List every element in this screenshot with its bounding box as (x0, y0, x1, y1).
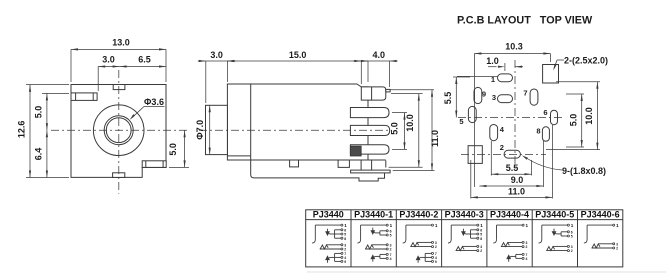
left view jack hole ring inner (106, 118, 131, 143)
svg-text:11.0: 11.0 (430, 130, 440, 147)
dim 11.0 pcb height (391, 90, 440, 171)
svg-text:2-(2.5x2.0): 2-(2.5x2.0) (564, 56, 608, 66)
pad 5 (468, 106, 476, 122)
svg-text:3.0: 3.0 (210, 50, 223, 60)
dim 5.5 pcb left (443, 77, 470, 118)
svg-text:6: 6 (543, 108, 547, 117)
pcb horizontal centerline (458, 117, 562, 119)
svg-text:4: 4 (526, 257, 528, 261)
svg-text:PJ3440-5: PJ3440-5 (535, 210, 574, 220)
dim 12.6 left view (17, 85, 70, 178)
svg-text:9.0: 9.0 (511, 175, 524, 185)
pad 1 (498, 74, 513, 82)
svg-text:5: 5 (390, 234, 392, 238)
svg-text:2: 2 (616, 247, 618, 251)
dim 13.0 left view (71, 37, 166, 82)
dim 15.0 side view (227, 50, 368, 82)
svg-text:7: 7 (523, 89, 527, 98)
svg-text:12.6: 12.6 (17, 121, 27, 139)
pin 2 (350, 108, 389, 118)
svg-text:PJ3440-3: PJ3440-3 (445, 210, 484, 220)
dim 6.5 left view (120, 54, 166, 67)
pcb lower row centerline (461, 153, 546, 155)
svg-text:2: 2 (526, 245, 528, 249)
svg-text:5.5: 5.5 (443, 92, 453, 105)
pin 4 (350, 145, 389, 154)
svg-text:2: 2 (480, 249, 482, 253)
pin 5 base block (361, 161, 386, 171)
pin 4 base section (350, 146, 361, 156)
pad 8 (542, 127, 549, 142)
left view bottom notch (113, 173, 125, 178)
dim 10.0 pcb right (546, 82, 600, 150)
svg-text:1: 1 (526, 223, 529, 228)
schematic PJ3440-4 (493, 223, 528, 262)
side view flange line (250, 84, 252, 156)
svg-text:9-(1.8x0.8): 9-(1.8x0.8) (562, 166, 606, 176)
label 2-(2.5x2.0) with leader (553, 56, 608, 71)
svg-text:4: 4 (390, 257, 392, 261)
svg-text:9: 9 (344, 260, 346, 264)
left view vertical centerline (118, 70, 120, 194)
dim 5.0 left view left side (34, 93, 70, 130)
svg-text:5.0: 5.0 (34, 106, 44, 119)
svg-text:6.4: 6.4 (34, 148, 44, 161)
pin 1 top (361, 87, 390, 100)
svg-text:2: 2 (390, 248, 392, 252)
svg-text:PJ3440-2: PJ3440-2 (399, 210, 438, 220)
svg-text:8: 8 (344, 237, 346, 241)
side view barrel (206, 105, 228, 154)
pad 6 (551, 110, 558, 125)
svg-text:5: 5 (459, 117, 463, 126)
side view centerline (199, 129, 392, 131)
pad 7 (530, 89, 538, 105)
svg-text:5: 5 (571, 235, 573, 239)
svg-text:PJ3440-4: PJ3440-4 (490, 210, 529, 220)
left view top notch (113, 85, 125, 90)
svg-text:8: 8 (536, 126, 540, 135)
dim 5.5 pcb bottom (491, 163, 531, 175)
label dia 3.6 with leader (130, 97, 165, 120)
pad 9 (474, 87, 482, 103)
svg-text:11.0: 11.0 (508, 186, 525, 196)
side view foot (251, 156, 386, 181)
svg-text:6.5: 6.5 (138, 54, 151, 64)
schematic PJ3440-6 (584, 223, 619, 250)
svg-text:Φ3.6: Φ3.6 (144, 97, 164, 107)
pcb extension columns (457, 76, 552, 198)
pad 3 (498, 95, 513, 103)
left view top-left shield tab (71, 93, 97, 101)
svg-text:1: 1 (571, 223, 574, 228)
left view horizontal centerline (51, 129, 189, 131)
svg-text:5.0: 5.0 (168, 143, 178, 156)
svg-text:5.0: 5.0 (390, 122, 400, 135)
svg-text:P.C.B LAYOUT TOP VIEW: P.C.B LAYOUT TOP VIEW (457, 14, 593, 26)
dim 5.0 side view (390, 113, 407, 150)
svg-text:2: 2 (571, 249, 573, 253)
svg-text:1: 1 (616, 223, 619, 228)
pin 3 (350, 125, 389, 135)
dim 10.3 pcb (474, 42, 550, 77)
svg-text:5.5: 5.5 (506, 163, 519, 173)
svg-text:10.0: 10.0 (405, 114, 415, 132)
schematic PJ3440-5 (539, 223, 574, 253)
pcb vertical centerline (514, 60, 516, 170)
left view body outline (71, 85, 166, 178)
svg-text:5.0: 5.0 (568, 114, 578, 127)
dim 3.0 side view (198, 50, 236, 103)
pad 2 (504, 150, 520, 158)
svg-text:3: 3 (492, 93, 496, 102)
svg-text:15.0: 15.0 (289, 50, 307, 60)
svg-text:4: 4 (500, 125, 505, 134)
svg-text:10.0: 10.0 (584, 107, 594, 125)
svg-text:1.0: 1.0 (486, 56, 499, 66)
schematic PJ3440-1 (357, 223, 392, 262)
left view jack hole ring outer (104, 116, 133, 145)
left view jack barrel circle (93, 105, 144, 156)
corner pad top right (543, 65, 559, 84)
dim 4.0 side view (353, 50, 397, 87)
svg-text:2: 2 (435, 245, 437, 249)
svg-text:8: 8 (480, 237, 482, 241)
svg-text:3.0: 3.0 (102, 54, 115, 64)
shield pad left (468, 146, 482, 164)
schematic PJ3440-3 (448, 223, 483, 253)
dim 9.0 pcb bottom (479, 175, 543, 187)
svg-text:2: 2 (344, 248, 346, 252)
svg-text:PJ3440-1: PJ3440-1 (354, 210, 393, 220)
dim 1.0 pcb (486, 56, 523, 71)
dim 3.0 left view (98, 54, 119, 91)
dim 5.0 pcb right (566, 94, 584, 147)
dim dia 7.0 side view (195, 105, 211, 154)
svg-text:PJ3440: PJ3440 (313, 210, 344, 220)
schematic PJ3440 (312, 223, 347, 264)
variant table frame (306, 210, 623, 267)
dim 5.0 left view right side (168, 130, 189, 167)
svg-text:Φ7.0: Φ7.0 (195, 120, 205, 140)
svg-text:4.0: 4.0 (373, 50, 386, 60)
svg-text:9: 9 (435, 260, 437, 264)
left view bottom-right mount tab (142, 161, 166, 168)
pad 4 (490, 125, 498, 141)
side view body bottom edge (227, 155, 250, 157)
side view foot notch (290, 160, 299, 167)
svg-text:10.3: 10.3 (505, 42, 523, 52)
svg-text:1: 1 (390, 223, 393, 228)
dim 11.0 pcb bottom (471, 186, 553, 198)
svg-text:2: 2 (500, 143, 504, 152)
svg-text:PJ3440-6: PJ3440-6 (581, 210, 620, 220)
footer rule (307, 271, 666, 273)
svg-text:1: 1 (435, 223, 438, 228)
svg-text:9: 9 (482, 90, 486, 99)
label 9-(1.8x0.8) with leader (522, 155, 606, 176)
side view body outline (227, 84, 368, 160)
dim 10.0 side view (389, 94, 423, 168)
schematic PJ3440-2 (403, 223, 438, 264)
svg-text:13.0: 13.0 (112, 37, 130, 47)
pin 5 bar (351, 170, 391, 173)
dim 6.4 left view (34, 130, 49, 177)
